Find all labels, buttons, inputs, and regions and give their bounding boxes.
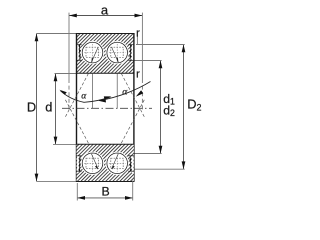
dimension D2: top leader <box>136 44 185 46</box>
contact arrow lower (top left ball) <box>91 58 93 63</box>
dimension B: left extension <box>76 183 78 201</box>
alpha arc left <box>61 91 111 103</box>
shield left (top) <box>78 44 81 60</box>
contact line dashed: bottom-left row to pressure centre <box>65 98 89 143</box>
bore edge line (bottom section) <box>76 143 134 145</box>
shield right lips (top) <box>130 45 132 48</box>
ball centre dashed vertical left (top) <box>92 44 94 64</box>
dimension D: vertical dimension line <box>36 34 38 182</box>
ball cutout right (top) <box>106 41 129 64</box>
dimension d1 d2: bottom arrow <box>159 146 163 154</box>
dimension D2: bottom arrow <box>182 161 186 169</box>
outer+inner ring hatched block (bottom) <box>77 144 134 181</box>
contact arrow lower (bottom left ball) <box>95 166 98 170</box>
ball right (bottom) <box>107 153 128 174</box>
dimension B: right arrow <box>125 196 133 200</box>
alpha arc left arrowhead left end (points up-left) <box>59 90 66 95</box>
dimension B: left arrow <box>77 196 85 200</box>
dimension d1 d2: top arrow <box>159 61 163 69</box>
dimension d: bottom arrow <box>54 137 58 145</box>
contact line dashed: top-left row to pressure centre <box>65 74 89 119</box>
dimension D2: bottom leader <box>134 168 185 170</box>
dimension D: bottom arrow <box>35 174 39 182</box>
svg-text:a: a <box>101 3 109 18</box>
contact arrow lower (bottom right ball) <box>112 166 115 170</box>
contact arrow lower (top right ball) <box>116 58 118 63</box>
dimension d1 d2: bottom leader <box>134 153 162 155</box>
svg-text:d: d <box>45 99 52 114</box>
cage pocket dashed rect right ball (bottom) <box>111 158 123 169</box>
cage pocket dashed rect left ball (bottom) <box>86 158 98 169</box>
contact line dashed: bottom-right row to pressure centre <box>121 98 145 143</box>
dimension d: top leader <box>55 73 77 75</box>
inner race shoulder line left (top) <box>77 59 82 61</box>
dimension d1 d2: top leader <box>134 60 162 62</box>
cage pocket dashed rect left ball (top) <box>86 47 98 58</box>
top edge line <box>76 33 134 35</box>
ball crosshair horizontal left (top) <box>84 52 101 54</box>
dimension d: bottom leader <box>53 143 77 145</box>
ball centre dashed vertical right (top) <box>116 44 118 64</box>
shield right (bottom) <box>129 156 132 172</box>
ball crosshair horizontal right (bottom) <box>109 162 126 164</box>
right face line <box>133 33 135 182</box>
dimension D2: top arrow <box>182 45 186 53</box>
ball pitch vertical left <box>92 74 94 109</box>
alpha arc right big arrowhead (points down-left, on arc) <box>136 90 144 96</box>
ball cutout right (bottom) <box>106 152 129 175</box>
outer+inner ring hatched block (top) <box>77 34 134 74</box>
svg-text:B: B <box>101 185 109 199</box>
contact line in right ball (top) <box>112 47 119 62</box>
ball centre dashed vertical right (bottom) <box>116 153 118 173</box>
D2 extension stub at right face <box>136 36 138 45</box>
outer race shoulder line left (bottom) <box>77 170 82 172</box>
svg-text:r: r <box>136 28 140 40</box>
inner race shoulder line right (bottom) <box>128 155 134 157</box>
contact line in left ball (top) <box>91 47 98 62</box>
white seal gap right (top) <box>132 44 134 61</box>
outer race shoulder line left (top) <box>77 44 82 46</box>
dimension D2: vertical dimension line <box>183 45 185 170</box>
dimension a: right arrow <box>135 14 143 18</box>
alpha arc right arrowhead left end (points left) <box>98 99 106 102</box>
shield right (top) <box>129 44 132 60</box>
inner race shoulder line right (top) <box>128 59 134 61</box>
ball left (top) <box>82 42 103 63</box>
alpha arc left arrowhead right end (points right) <box>104 96 112 99</box>
shield left lips (bottom) <box>79 169 81 172</box>
dimension d1 d2: vertical dimension line <box>160 61 162 154</box>
contact line in right ball (bottom) <box>112 154 119 169</box>
contact line dashed: top-right row to pressure centre <box>121 74 145 119</box>
dimension a: left extension line (to pressure centre) <box>68 13 70 79</box>
axis centreline <box>62 107 152 109</box>
dimension a: right extension line (to pressure centre) <box>141 13 143 79</box>
svg-text:r: r <box>136 68 140 80</box>
dimension a: left arrow <box>69 14 77 18</box>
bottom edge line <box>76 181 134 183</box>
dimension d: vertical dimension line <box>55 74 57 145</box>
alpha arc right <box>99 82 151 101</box>
ball crosshair horizontal left (bottom) <box>84 162 101 164</box>
ball pitch vertical right <box>116 74 118 109</box>
outer race shoulder line right (bottom) <box>128 170 134 172</box>
left face line <box>76 33 78 182</box>
white seal gap left (top) <box>77 44 79 61</box>
ball left (bottom) <box>82 153 103 174</box>
white seal gap left (bottom) <box>77 156 79 173</box>
shield right lips (bottom) <box>130 169 132 172</box>
dimension B: right extension <box>132 181 134 201</box>
ball centre dashed vertical left (bottom) <box>92 153 94 173</box>
shield left (bottom) <box>78 156 81 172</box>
dimension B: line <box>77 197 133 199</box>
bore edge line (top section) <box>76 72 134 74</box>
dimension a: dimension line <box>69 15 142 17</box>
inner race shoulder line left (bottom) <box>77 155 82 157</box>
outer race shoulder line right (top) <box>128 44 134 46</box>
contact line in left ball (bottom) <box>91 154 98 169</box>
dimension D: top leader <box>37 33 77 35</box>
dimension d: top arrow <box>54 74 58 82</box>
ball cutout left (bottom) <box>81 152 104 175</box>
svg-text:D: D <box>27 99 36 114</box>
ball right (top) <box>107 42 128 63</box>
white seal gap right (bottom) <box>132 156 134 173</box>
cage pocket dashed rect right ball (top) <box>111 47 123 58</box>
ball crosshair horizontal right (top) <box>109 52 126 54</box>
dimension D: top arrow <box>35 34 39 42</box>
ball cutout left (top) <box>81 41 104 64</box>
shield left lips (top) <box>79 45 81 48</box>
dimension D: bottom leader <box>37 180 78 182</box>
